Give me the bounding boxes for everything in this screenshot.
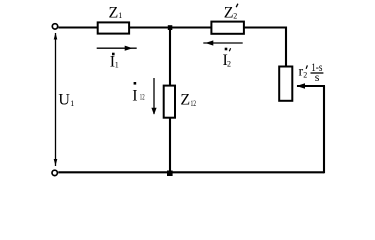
resistor Z12 box [164, 86, 175, 118]
node junction bottom at middle branch [167, 171, 173, 177]
wire right branch vertical upper [285, 27, 287, 67]
terminal bottom-left [52, 170, 57, 175]
resistor Z2' box [211, 22, 244, 34]
svg-text:I: I [132, 87, 137, 104]
voltage arrow U1 head down [54, 159, 58, 166]
svg-text:12: 12 [140, 92, 145, 101]
svg-text:Z: Z [109, 5, 119, 22]
node junction top at middle branch [168, 25, 173, 30]
wire top rail [58, 26, 286, 28]
svg-text:12: 12 [191, 99, 197, 108]
rheostat wiper arrowhead [297, 83, 306, 88]
svg-text:2: 2 [227, 60, 231, 69]
svg-text:U: U [58, 92, 70, 109]
wire bottom rail [58, 171, 324, 173]
svg-text:2: 2 [233, 12, 237, 21]
svg-text:2: 2 [303, 70, 307, 79]
current arrow I12 [153, 78, 155, 114]
svg-text:s: s [315, 70, 320, 84]
svg-text:1: 1 [115, 60, 119, 69]
wire middle branch [169, 28, 171, 173]
label fraction bar [311, 72, 324, 74]
voltage arrow U1 line [55, 33, 57, 166]
current arrow I2' [203, 42, 242, 44]
svg-text:1: 1 [70, 99, 74, 108]
current arrow I1 [97, 47, 137, 49]
resistor Z1 box [98, 22, 129, 33]
svg-text:Z: Z [224, 5, 234, 22]
resistor r2'(1-s)/s box [279, 67, 292, 101]
wire right branch vertical lower [323, 86, 325, 173]
svg-text:1: 1 [118, 11, 122, 20]
svg-text:Z: Z [180, 92, 190, 109]
wire rheostat wiper horizontal [297, 85, 325, 87]
voltage arrow U1 head up [54, 33, 58, 40]
terminal top-left [52, 24, 57, 29]
